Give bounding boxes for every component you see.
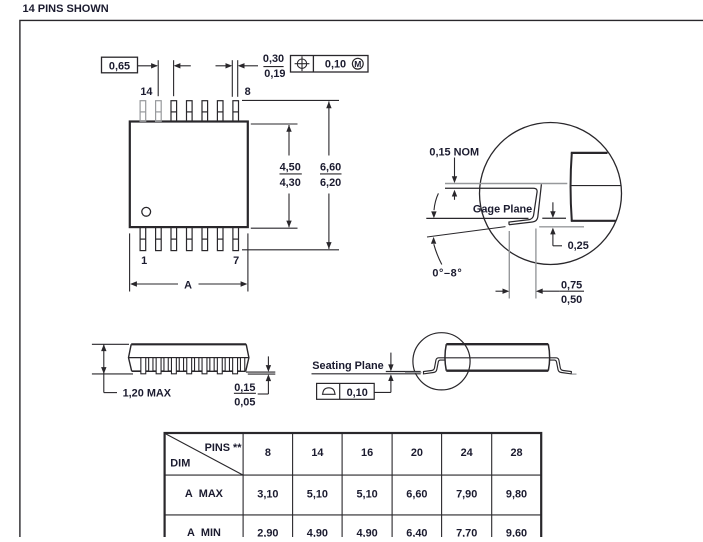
feature control frame: position 0,10 M [291,56,369,73]
svg-text:8: 8 [245,86,251,98]
svg-text:7: 7 [233,255,239,267]
0,65 extension line (pin 12 center) [173,60,175,96]
far row lead 7 (side view) [240,358,244,372]
svg-text:0,15: 0,15 [234,382,255,394]
0,15/0,05 dimension [267,356,269,365]
svg-text:14: 14 [311,447,323,459]
seating plane arrows [390,353,392,365]
svg-text:4,30: 4,30 [280,177,301,189]
dimension 4,50/4,30 [288,125,290,156]
svg-text:8: 8 [265,447,271,459]
detail: lead top surface (gray) [445,183,567,185]
pin 11 (top row) [187,101,193,122]
1,20 MAX dimension [103,344,105,392]
svg-text:28: 28 [510,447,522,459]
dimension table [165,433,542,542]
gray line foot bottom extension [539,226,584,228]
pin 5 (bottom row) [202,227,208,250]
pin 14 (top row) [140,101,146,122]
svg-text:A MAX: A MAX [185,488,224,500]
dimension A extension lines [129,233,131,291]
svg-text:0,30: 0,30 [263,53,284,65]
0,65 leader arrow [138,65,157,67]
svg-text:A: A [184,279,192,291]
pin 9 (top row) [217,101,223,122]
svg-text:4,90: 4,90 [356,527,377,537]
far row lead 2 (side view) [164,358,168,372]
side view: right chamfer [246,344,249,371]
svg-text:7,90: 7,90 [456,488,477,500]
svg-text:5,10: 5,10 [307,488,328,500]
svg-text:16: 16 [361,447,373,459]
svg-text:6,40: 6,40 [406,527,427,537]
near row lead 7 (side view) [233,358,238,374]
svg-text:1,20 MAX: 1,20 MAX [123,388,172,400]
extension line pins bottom (6,60) [242,249,339,251]
svg-text:20: 20 [411,447,423,459]
svg-text:1: 1 [141,255,147,267]
standoff reference lines right [246,371,275,373]
far row lead 3 (side view) [179,358,183,372]
extension line body bottom (4,50) [251,227,298,229]
right side view: left lead [424,358,446,374]
svg-text:0,25: 0,25 [568,240,589,252]
near row lead 5 (side view) [202,358,207,374]
svg-text:14 PINS SHOWN: 14 PINS SHOWN [23,3,109,15]
angled lead foot line (0-8 deg) [427,227,506,237]
flatness feature control frame [317,383,375,399]
near row lead 4 (side view) [187,358,192,374]
svg-text:0,15 NOM: 0,15 NOM [429,146,479,158]
svg-text:M: M [354,59,361,69]
0,30/0,19 arrows [216,65,227,67]
true position symbol [295,56,310,71]
svg-text:Gage Plane: Gage Plane [473,204,532,216]
detail: body mid line [571,185,622,187]
package body (top view) [130,122,248,228]
svg-text:0,50: 0,50 [561,294,582,306]
seating plane line left [92,373,133,375]
svg-text:2,90: 2,90 [257,527,278,537]
svg-text:A MIN: A MIN [187,527,221,537]
far row lead 5 (side view) [210,358,214,372]
svg-text:0,75: 0,75 [561,280,582,292]
0,30/0,19 extension lines (pin 8 edges) [231,60,233,97]
pin 1 (bottom row) [140,227,146,250]
pin 3 (bottom row) [171,227,177,250]
svg-text:6,60: 6,60 [406,488,427,500]
far row lead 1 (side view) [149,358,153,372]
near row lead 2 (side view) [156,358,161,374]
side view: body bottom line [132,370,246,372]
gray shadows under feet [405,372,422,374]
svg-text:24: 24 [461,447,473,459]
near row lead 1 (side view) [141,358,146,374]
gage plane line [426,217,528,219]
detail: package body edge [571,153,572,221]
pin 4 (bottom row) [187,227,193,250]
detail callout circle on left lead [413,333,470,390]
0,75/0,50 extension lines (gray) [508,231,510,299]
pin 2 (bottom row) [156,227,162,250]
svg-text:0,65: 0,65 [109,60,130,72]
0,65 extension line (pin 13 center) [157,60,159,96]
dimension 6,60/6,20 [328,101,330,155]
right side view: right lead [550,358,572,374]
angle dim arrow onto gage plane [434,193,438,210]
svg-text:4,50: 4,50 [280,161,301,173]
far row lead 4 (side view) [195,358,199,372]
0,25 dimension [552,202,554,211]
pin 10 (top row) [202,101,208,122]
detail view circle [480,123,622,265]
angle dim arrow onto angled line [431,237,436,244]
detail: lead outline [445,188,537,225]
pin 12 (top row) [171,101,177,122]
0,75/0,50 arrows [496,290,504,292]
0,65 right arrow [174,63,181,68]
pin 8 (top row) [233,101,239,122]
dimension A [130,281,137,286]
far row lead 6 (side view) [225,358,229,372]
M circle (MMC modifier) [352,58,363,69]
svg-text:3,10: 3,10 [257,488,278,500]
svg-text:14: 14 [140,86,152,98]
pin 7 (bottom row) [233,227,239,250]
svg-text:0,05: 0,05 [234,396,255,408]
svg-text:0,10: 0,10 [325,59,346,71]
header diagonal [165,434,243,476]
side view: body top [131,343,246,345]
svg-text:0,19: 0,19 [264,68,285,80]
near row lead 3 (side view) [171,358,176,374]
svg-text:PINS **: PINS ** [205,442,243,454]
pin 13 (top row) [156,101,162,122]
extension line pin8 top (6,60) [242,99,339,101]
svg-text:9,60: 9,60 [506,527,527,537]
svg-text:6,20: 6,20 [320,177,341,189]
svg-text:7,70: 7,70 [456,527,477,537]
side view: mold parting line [129,357,249,359]
svg-text:0°–8°: 0°–8° [432,267,462,279]
svg-text:DIM: DIM [170,458,190,470]
pin 6 (bottom row) [217,227,223,250]
seating plane double line [312,373,421,375]
dimension 0,65 (pitch) box [102,57,138,73]
seating plane symbol (half dome) [322,393,336,395]
svg-text:5,10: 5,10 [356,488,377,500]
svg-text:4,90: 4,90 [307,527,328,537]
body top extension line [92,343,129,345]
pin 1 index circle [142,207,151,216]
side view: left chamfer [129,344,132,371]
svg-text:0,10: 0,10 [347,387,368,399]
near row lead 6 (side view) [217,358,222,374]
extension line body top (4,50) [251,123,298,125]
0,15 NOM arrows [454,158,456,178]
svg-text:Seating Plane: Seating Plane [312,360,383,372]
svg-text:6,60: 6,60 [320,161,341,173]
svg-text:9,80: 9,80 [506,488,527,500]
right side view: body [445,344,551,371]
